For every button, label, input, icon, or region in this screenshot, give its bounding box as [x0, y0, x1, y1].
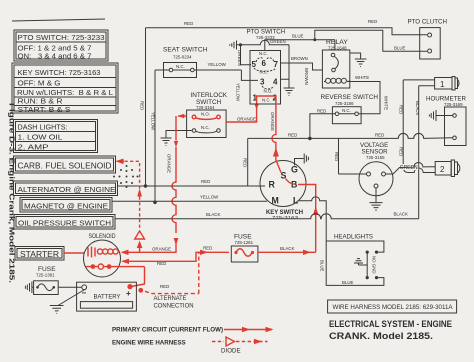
- chassis ground left of fuse F1: [25, 282, 33, 294]
- svg-text:725-3169: 725-3169: [444, 102, 463, 107]
- wire red horizontal to hourmeter: [243, 133, 453, 186]
- reverse switch SW4: [308, 94, 378, 140]
- red jumper S to B: [286, 179, 294, 185]
- svg-text:ORANGE: ORANGE: [167, 154, 172, 173]
- fuse F2 725-1281: [231, 234, 258, 263]
- svg-text:ALTERNATOR @ ENGINE: ALTERNATOR @ ENGINE: [18, 185, 116, 194]
- svg-text:ENGINE WIRE HARNESS: ENGINE WIRE HARNESS: [112, 340, 186, 347]
- svg-text:ELECTRICAL SYSTEM - ENGINE: ELECTRICAL SYSTEM - ENGINE: [329, 319, 452, 329]
- wire yellow horizontal bus (magneto): [112, 195, 267, 202]
- svg-text:GREEN: GREEN: [237, 50, 242, 66]
- svg-text:OIL PRESSURE SWITCH: OIL PRESSURE SWITCH: [18, 218, 111, 227]
- wire orange pin2 to key S: [270, 101, 281, 173]
- ground below interlock: [161, 131, 193, 146]
- wire red fuse to B riser: [258, 246, 316, 255]
- svg-text:N.O.: N.O.: [264, 89, 273, 94]
- wire black connector1 drop: [415, 86, 420, 219]
- starter wire red: [64, 252, 85, 254]
- legend engine wire harness: [112, 337, 268, 355]
- wire green/blue pin6 up: [265, 30, 427, 51]
- svg-text:N.C.: N.C.: [342, 108, 351, 113]
- svg-text:725-3155: 725-3155: [366, 155, 385, 160]
- alternate connection dashed: [145, 252, 199, 309]
- ground symbol below battery: [50, 306, 64, 314]
- legend primary circuit: [112, 327, 274, 334]
- svg-text:PRIMARY CIRCUIT (CURRENT FLOW): PRIMARY CIRCUIT (CURRENT FLOW): [112, 327, 223, 334]
- svg-text:BLUE: BLUE: [292, 34, 304, 39]
- wire interlock N.C. to ground: [166, 131, 192, 139]
- svg-text:CRANK. Model 2185.: CRANK. Model 2185.: [329, 331, 433, 341]
- svg-text:BROWN: BROWN: [304, 68, 309, 85]
- wire red solenoid to fuse (via riser): [121, 246, 229, 266]
- dot cluster near carb wire: [113, 165, 139, 188]
- solenoid: [84, 233, 145, 277]
- wire seat to PTO pin3: [241, 70, 258, 80]
- svg-text:725-3186: 725-3186: [335, 101, 354, 106]
- svg-text:1: 1: [440, 80, 445, 89]
- ground symbol below voltage sensor: [370, 203, 383, 211]
- svg-text:BLUE: BLUE: [320, 260, 325, 272]
- svg-text:RED: RED: [368, 19, 377, 24]
- svg-text:YELLOW: YELLOW: [151, 112, 156, 131]
- connector 1: [403, 77, 459, 91]
- svg-text:725-1381: 725-1381: [36, 273, 55, 278]
- svg-text:NO GND: NO GND: [372, 256, 377, 274]
- svg-text:BATTERY: BATTERY: [94, 294, 122, 301]
- box OIL PRESSURE SWITCH: [14, 215, 115, 230]
- svg-text:DIODE: DIODE: [221, 348, 241, 355]
- svg-text:GREEN: GREEN: [400, 165, 418, 171]
- svg-text:BLUE: BLUE: [342, 280, 354, 285]
- svg-text:2: 2: [273, 94, 278, 103]
- figure caption vertical: [8, 103, 15, 283]
- wire brown pin7 to relay: [281, 56, 323, 85]
- svg-text:L: L: [293, 196, 299, 206]
- svg-text:CONNECTION: CONNECTION: [154, 303, 194, 310]
- svg-text:BLACK: BLACK: [206, 212, 220, 217]
- info table KEY switch: [12, 63, 118, 114]
- svg-text:BLUE: BLUE: [394, 46, 406, 51]
- svg-text:7: 7: [274, 60, 279, 69]
- ground symbol at headlight lamp: [354, 259, 363, 263]
- svg-text:CARB. FUEL SOLENOID: CARB. FUEL SOLENOID: [18, 162, 112, 171]
- svg-text:ALTERNATE: ALTERNATE: [154, 295, 187, 302]
- svg-text:WIRE HARNESS MODEL 2185: 629-3: WIRE HARNESS MODEL 2185: 629-3011A: [333, 304, 454, 311]
- key switch SW5: [260, 161, 306, 221]
- svg-text:R: R: [269, 180, 276, 190]
- title text: [329, 319, 452, 341]
- svg-text:RED: RED: [157, 261, 166, 266]
- box MAGNETO: [20, 198, 112, 213]
- wire pin4 to ground: [281, 45, 295, 96]
- svg-text:RED: RED: [184, 21, 193, 26]
- svg-text:725-1281: 725-1281: [235, 240, 254, 245]
- svg-text:PTO SWITCH: 725-3233: PTO SWITCH: 725-3233: [18, 33, 105, 42]
- wire top red bus: [146, 19, 428, 35]
- svg-text:WHITE: WHITE: [355, 75, 369, 80]
- wire key L blue: [299, 197, 326, 241]
- wire seat-switch yellow vertical: [151, 70, 157, 204]
- svg-text:RED: RED: [243, 158, 248, 167]
- svg-text:RED: RED: [375, 133, 384, 138]
- wire red solenoid to battery: [127, 267, 144, 293]
- svg-text:DASH LIGHTS:: DASH LIGHTS:: [18, 123, 68, 132]
- svg-text:ON: 3 & 4 and 6 & 7: ON: 3 & 4 and 6 & 7: [18, 52, 92, 61]
- svg-text:YELLOW: YELLOW: [200, 195, 219, 200]
- wire red interlock exit left with arrow: [121, 114, 187, 255]
- svg-text:KEY SWITCH: 725-3163: KEY SWITCH: 725-3163: [18, 68, 101, 77]
- svg-text:RED: RED: [399, 147, 404, 156]
- svg-text:BROWN: BROWN: [291, 56, 308, 61]
- svg-text:MAGNETO @ ENGINE: MAGNETO @ ENGINE: [24, 201, 108, 210]
- svg-text:RED: RED: [201, 179, 210, 184]
- ground symbol below interlock: [161, 138, 172, 146]
- svg-text:N.C.: N.C.: [259, 51, 268, 56]
- svg-text:RED: RED: [317, 108, 326, 113]
- carb solenoid dashed diode wire: [116, 159, 145, 253]
- svg-text:SOLENOID: SOLENOID: [89, 233, 116, 240]
- svg-text:RED: RED: [140, 101, 145, 110]
- wire black horizontal bus (oil pressure): [115, 212, 419, 219]
- svg-text:3: 3: [260, 78, 265, 87]
- box CARB. FUEL SOLENOID: [14, 156, 116, 173]
- svg-text:M: M: [272, 196, 279, 206]
- connector 2: [400, 160, 460, 177]
- svg-text:ORANGE: ORANGE: [152, 247, 171, 252]
- ground symbol at key switch G: [304, 154, 308, 164]
- ground symbol left of PTO switch: [230, 41, 237, 50]
- svg-text:725-3163: 725-3163: [272, 215, 299, 220]
- headlights: [320, 233, 384, 285]
- svg-text:YELLOW: YELLOW: [208, 62, 227, 67]
- svg-text:6: 6: [262, 59, 267, 68]
- svg-text:HEADLIGHTS: HEADLIGHTS: [334, 233, 373, 240]
- svg-text:REVERSE SWITCH: REVERSE SWITCH: [321, 94, 379, 101]
- svg-text:ORANGE: ORANGE: [270, 112, 275, 131]
- svg-text:BLACK: BLACK: [415, 101, 420, 115]
- PTO switch assembly SW3: [247, 29, 286, 105]
- svg-text:2: 2: [440, 165, 445, 174]
- svg-text:GREEN: GREEN: [270, 39, 286, 44]
- svg-text:N.C.: N.C.: [176, 64, 185, 69]
- svg-text:RED: RED: [160, 284, 169, 289]
- svg-text:4: 4: [273, 78, 278, 87]
- interlock switch SW2: [187, 92, 228, 138]
- svg-text:RED: RED: [399, 105, 404, 114]
- svg-text:YELLOW: YELLOW: [236, 83, 241, 102]
- PTO clutch: [408, 19, 447, 60]
- fuse F1 725-1381: [25, 266, 82, 295]
- svg-text:WHITE: WHITE: [384, 96, 389, 110]
- svg-text:ORANGE: ORANGE: [237, 117, 256, 122]
- ground left of PTO switch: [230, 40, 289, 65]
- svg-text:725-0234: 725-0234: [173, 54, 192, 59]
- hourmeter M1: [426, 97, 467, 146]
- svg-text:N.C.: N.C.: [262, 98, 271, 103]
- ground symbol right of relay: [355, 59, 367, 67]
- svg-text:1. LOW OIL: 1. LOW OIL: [18, 133, 63, 142]
- wire left red vertical: [140, 28, 148, 188]
- svg-text:STARTER: STARTER: [20, 250, 59, 259]
- wire red horizontal bus (alternator): [117, 179, 265, 186]
- wire red B to fuse riser: [298, 185, 319, 253]
- svg-text:2. AMP: 2. AMP: [18, 143, 49, 152]
- svg-text:START: B & S: START: B & S: [18, 105, 71, 114]
- ground symbol at hourmeter: [429, 110, 436, 121]
- relay K1: [322, 39, 349, 88]
- svg-text:N.C.: N.C.: [201, 125, 210, 130]
- svg-text:RED: RED: [288, 133, 297, 138]
- svg-text:N.C.: N.C.: [260, 70, 269, 75]
- wire orange interlock to PTO pin1: [226, 101, 259, 122]
- seat switch SW1: [155, 47, 241, 78]
- ground symbol below PTO pin 4: [284, 88, 295, 96]
- svg-text:N.O.: N.O.: [201, 112, 210, 117]
- wire key G to ground: [295, 154, 309, 166]
- ground right of relay: [350, 53, 367, 67]
- svg-text:+: +: [126, 289, 131, 298]
- scan artifact line top-left: [12, 19, 105, 21]
- info table DASH LIGHTS: [14, 120, 98, 153]
- wire white relay to reverse switch: [347, 75, 388, 114]
- wire red connector1 drop: [399, 80, 409, 173]
- voltage sensor U1: [334, 138, 435, 210]
- wire harness model box: [328, 300, 457, 313]
- svg-text:PTO CLUTCH: PTO CLUTCH: [408, 19, 447, 26]
- box ALTERNATOR: [14, 181, 118, 196]
- svg-text:OFF: M & G: OFF: M & G: [18, 79, 61, 88]
- info table PTO switch: [14, 30, 108, 61]
- svg-text:725-3164: 725-3164: [196, 105, 215, 110]
- svg-text:SEAT SWITCH: SEAT SWITCH: [163, 47, 208, 54]
- battery: [77, 282, 137, 311]
- box STARTER: [15, 247, 64, 261]
- svg-text:RED: RED: [334, 152, 339, 161]
- battery ground wire: [50, 289, 86, 313]
- svg-text:RED: RED: [203, 246, 212, 251]
- svg-text:BLACK: BLACK: [394, 212, 408, 217]
- svg-text:BLACK: BLACK: [280, 246, 294, 251]
- svg-text:G: G: [291, 165, 298, 175]
